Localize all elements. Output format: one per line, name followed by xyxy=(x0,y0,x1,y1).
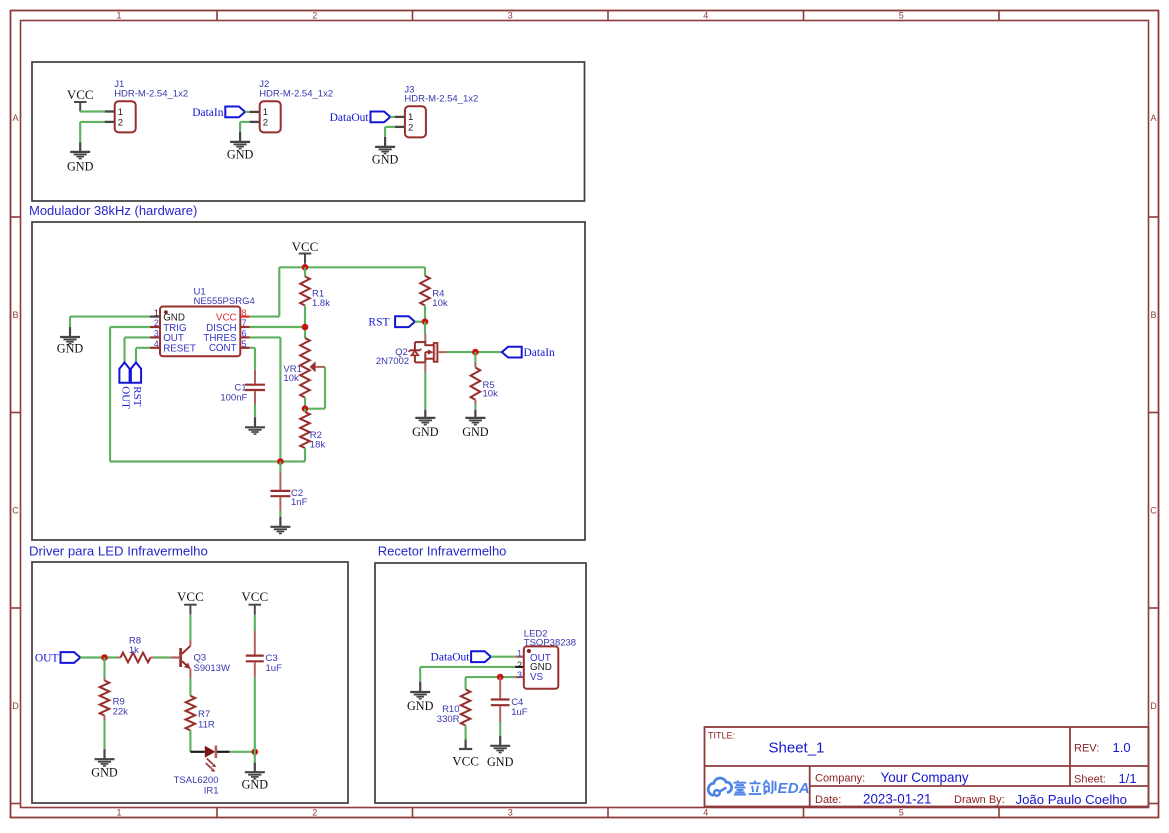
svg-text:10k: 10k xyxy=(432,298,448,309)
svg-text:D: D xyxy=(1150,701,1157,711)
svg-text:330R: 330R xyxy=(437,714,460,725)
wire J1 pin2 to GND xyxy=(80,122,105,142)
capacitor C3 1uF xyxy=(246,631,282,677)
svg-text:1.8k: 1.8k xyxy=(312,298,330,309)
svg-text:2N7002: 2N7002 xyxy=(376,356,409,367)
svg-text:OUT: OUT xyxy=(120,386,132,409)
svg-text:6: 6 xyxy=(242,329,247,339)
svg-text:Modulador 38kHz (hardware): Modulador 38kHz (hardware) xyxy=(29,203,197,218)
svg-text:Recetor Infravermelho: Recetor Infravermelho xyxy=(378,544,507,559)
svg-text:DataIn: DataIn xyxy=(192,107,224,119)
svg-text:22k: 22k xyxy=(113,707,129,718)
driver section box xyxy=(32,562,348,803)
svg-text:RST: RST xyxy=(131,386,143,406)
svg-text:CONT: CONT xyxy=(209,343,237,354)
wire C4 to GND xyxy=(499,722,501,736)
svg-text:DataOut: DataOut xyxy=(330,112,370,124)
net port OUT (555 output) xyxy=(119,363,131,410)
svg-text:2: 2 xyxy=(154,318,159,328)
wire VCC rail horizontal xyxy=(279,266,425,268)
svg-text:RESET: RESET xyxy=(163,344,196,355)
svg-text:EDA: EDA xyxy=(778,780,810,797)
svg-text:8: 8 xyxy=(242,308,247,318)
svg-text:1k: 1k xyxy=(129,645,139,656)
wire node to Q2 drain xyxy=(424,322,426,334)
net port RST (reset) xyxy=(131,363,143,407)
wire C3 to node xyxy=(254,677,256,752)
svg-text:TRIG: TRIG xyxy=(163,323,186,334)
power flag VCC (R10, inverted) xyxy=(452,740,479,769)
ground GND (J1) xyxy=(67,142,94,173)
ground (C2) xyxy=(270,511,290,534)
svg-text:1uF: 1uF xyxy=(266,663,283,674)
svg-text:Sheet_1: Sheet_1 xyxy=(769,740,825,757)
wire U1 pin3 to OUT port xyxy=(125,337,151,362)
svg-text:VCC: VCC xyxy=(216,312,237,323)
svg-text:S9013W: S9013W xyxy=(194,663,230,674)
resistor R9 22k xyxy=(100,658,128,721)
wire U1 pin4 to RST port xyxy=(136,348,150,363)
svg-text:VCC: VCC xyxy=(452,753,479,768)
row letters left xyxy=(12,113,19,711)
power flag VCC (555 rail) xyxy=(292,239,319,264)
svg-text:2023-01-21: 2023-01-21 xyxy=(863,792,932,807)
junction DataIn/R5 node xyxy=(472,349,479,356)
transistor Q3 S9013W xyxy=(171,640,230,678)
svg-text:Drawn By:: Drawn By: xyxy=(954,794,1005,806)
modulator section box xyxy=(32,222,585,540)
svg-text:Company:: Company: xyxy=(815,773,865,785)
connector J2 HDR-M-2.54_1x2 xyxy=(250,79,333,132)
svg-text:B: B xyxy=(1150,310,1156,320)
svg-text:REV:: REV: xyxy=(1074,743,1099,755)
svg-text:2: 2 xyxy=(408,123,413,134)
power flag VCC (Q3 collector) xyxy=(177,589,204,615)
svg-text:GND: GND xyxy=(462,425,489,439)
svg-text:3: 3 xyxy=(508,808,513,818)
svg-text:3: 3 xyxy=(154,329,159,339)
connector section box xyxy=(32,62,585,201)
column numbers top xyxy=(116,11,903,21)
wire J2 pin2 to GND xyxy=(240,122,250,132)
logo chinese characters 嘉立创 xyxy=(734,780,776,795)
junction VR1/R2 node xyxy=(302,405,309,412)
wire LED2 pin3 to R10/C4 xyxy=(466,677,516,689)
wire LED to C3/GND node xyxy=(230,751,255,753)
svg-text:VS: VS xyxy=(530,672,544,683)
svg-text:A: A xyxy=(1150,113,1156,123)
wire R5 to GND xyxy=(474,405,476,410)
svg-text:VCC: VCC xyxy=(67,87,94,102)
svg-text:1nF: 1nF xyxy=(291,497,308,508)
svg-text:4: 4 xyxy=(154,339,159,349)
wire R9 to GND xyxy=(103,720,105,749)
wire node down to GND xyxy=(254,752,256,763)
ground GND (C3/LED) xyxy=(242,762,269,791)
svg-text:5: 5 xyxy=(899,11,904,21)
capacitor C2 1nF xyxy=(270,462,307,512)
resistor R2 18k xyxy=(300,409,325,451)
ground GND (R9) xyxy=(91,749,118,779)
svg-text:2: 2 xyxy=(312,11,317,21)
svg-text:GND: GND xyxy=(91,765,118,779)
column numbers bottom xyxy=(116,808,903,818)
svg-text:TITLE:: TITLE: xyxy=(708,731,735,741)
wire J3 pin2 to GND xyxy=(385,127,395,137)
svg-text:5: 5 xyxy=(242,339,247,349)
transistor Q2 2N7002 xyxy=(376,334,447,372)
svg-text:C3: C3 xyxy=(266,653,278,664)
ground GND (U1 pin1) xyxy=(57,327,84,355)
wire VCC to C3 xyxy=(254,615,256,631)
svg-text:B: B xyxy=(12,310,18,320)
wire DataIn to J2 pin1 xyxy=(245,111,250,113)
svg-text:HDR-M-2.54_1x2: HDR-M-2.54_1x2 xyxy=(114,88,188,99)
svg-text:Sheet:: Sheet: xyxy=(1074,774,1106,786)
svg-text:4: 4 xyxy=(703,808,708,818)
resistor R5 10k xyxy=(471,352,498,404)
svg-text:5: 5 xyxy=(899,808,904,818)
wire U1 pin7 DISCH to R1/VR1 node xyxy=(250,326,305,328)
svg-text:GND: GND xyxy=(67,159,94,173)
svg-text:Your Company: Your Company xyxy=(881,770,969,785)
svg-text:10k: 10k xyxy=(483,389,499,400)
wire OUT to R8/R9 xyxy=(80,656,117,658)
svg-text:RST: RST xyxy=(368,317,389,329)
ground GND (R5) xyxy=(462,410,489,439)
wire VR1 bottom to node xyxy=(304,398,306,409)
power flag VCC (C3) xyxy=(241,589,268,615)
svg-text:1: 1 xyxy=(116,808,121,818)
svg-text:GND: GND xyxy=(487,755,514,769)
junction LED/C3/GND node xyxy=(252,749,259,756)
svg-text:11R: 11R xyxy=(198,719,215,730)
svg-text:3: 3 xyxy=(508,11,513,21)
svg-text:1: 1 xyxy=(517,648,522,658)
wire U1 pin6 THRES down to bottom rail xyxy=(250,337,281,461)
svg-text:3: 3 xyxy=(517,670,522,680)
svg-text:Date:: Date: xyxy=(815,794,841,806)
svg-text:1: 1 xyxy=(408,112,413,123)
svg-text:D: D xyxy=(12,701,19,711)
ground GND (J2) xyxy=(227,132,254,161)
svg-text:GND: GND xyxy=(242,778,269,792)
title block outline xyxy=(705,727,1149,807)
wire U1 pin2 TRIG down to bottom rail xyxy=(110,327,150,462)
svg-text:10k: 10k xyxy=(283,373,299,384)
receiver section box xyxy=(375,563,586,803)
junction OUT/R9 node xyxy=(101,654,108,661)
wire R7 to LED IR1 xyxy=(189,730,191,752)
wire R10 to VCC xyxy=(465,726,467,740)
svg-text:1: 1 xyxy=(118,107,123,118)
svg-text:4: 4 xyxy=(703,11,708,21)
svg-text:2: 2 xyxy=(312,808,317,818)
wire VCC to Q3 collector xyxy=(189,615,191,640)
svg-text:IR1: IR1 xyxy=(204,785,219,796)
svg-text:DataOut: DataOut xyxy=(431,652,471,664)
wire R8 to Q3 base xyxy=(154,656,171,658)
junction VCC rail / R1 xyxy=(302,264,309,271)
wire U1 pin5 CONT to C1 xyxy=(250,348,255,370)
ground GND (Q2) xyxy=(412,410,439,439)
wire Q3 emitter to R7 xyxy=(189,678,191,696)
op-amp timer U1 NE555PSRG4 xyxy=(150,287,255,357)
svg-text:1uF: 1uF xyxy=(511,707,528,718)
net port DataOut (J3) xyxy=(330,112,391,124)
ground GND (J3) xyxy=(372,137,399,166)
junction DISCH node xyxy=(302,324,309,331)
svg-text:1.0: 1.0 xyxy=(1113,740,1131,755)
wire VCC to J1 pin1 xyxy=(80,110,105,112)
power flag VCC (J1) xyxy=(67,87,94,111)
svg-text:João Paulo Coelho: João Paulo Coelho xyxy=(1016,792,1127,807)
led IR1 TSAL6200 xyxy=(174,746,230,797)
net port DataIn (J2) xyxy=(192,107,245,119)
svg-text:C: C xyxy=(12,505,19,515)
ground GND (C4) xyxy=(487,736,514,769)
wire R4 to Q2 drain node xyxy=(424,306,426,322)
ground GND (LED2 pin2) xyxy=(407,682,434,713)
resistor R10 330R xyxy=(437,689,471,725)
potentiometer VR1 10k xyxy=(283,338,319,398)
svg-text:DISCH: DISCH xyxy=(206,323,236,334)
svg-text:A: A xyxy=(12,113,18,123)
svg-text:2: 2 xyxy=(263,118,268,129)
svg-text:NE555PSRG4: NE555PSRG4 xyxy=(194,296,255,307)
svg-text:OUT: OUT xyxy=(35,653,59,665)
wire R2 bottom to rail corner xyxy=(110,448,305,462)
wire DataOut to J3 pin1 xyxy=(390,116,395,118)
svg-text:GND: GND xyxy=(412,425,439,439)
svg-text:2: 2 xyxy=(517,660,522,670)
wire VR1 wiper to R2 top node xyxy=(305,367,325,409)
wire rail to U1 pin8 VCC xyxy=(250,267,280,316)
junction VS/C4 node xyxy=(497,674,504,681)
svg-text:GND: GND xyxy=(163,312,185,323)
svg-text:GND: GND xyxy=(57,341,84,355)
svg-text:Q3: Q3 xyxy=(194,652,207,663)
svg-text:1: 1 xyxy=(263,107,268,118)
svg-text:1/1: 1/1 xyxy=(1119,771,1137,786)
svg-text:100nF: 100nF xyxy=(220,393,247,404)
svg-text:VCC: VCC xyxy=(177,589,204,604)
ir receiver LED2 TSOP38238 xyxy=(515,629,576,689)
net port DataOut (receiver) xyxy=(431,651,491,663)
resistor R8 1k xyxy=(118,635,154,662)
connector J3 HDR-M-2.54_1x2 xyxy=(395,84,478,137)
svg-text:2: 2 xyxy=(118,118,123,129)
net port OUT (driver input) xyxy=(35,652,80,664)
logo JLC EDA cloud icon xyxy=(708,778,731,796)
svg-text:TSOP38238: TSOP38238 xyxy=(524,637,576,648)
connector J1 HDR-M-2.54_1x2 xyxy=(105,79,188,132)
svg-text:VCC: VCC xyxy=(292,239,319,254)
svg-text:GND: GND xyxy=(372,152,399,166)
svg-text:Driver para LED Infravermelho: Driver para LED Infravermelho xyxy=(29,544,208,559)
svg-text:18k: 18k xyxy=(310,440,326,451)
resistor R7 11R xyxy=(186,696,215,731)
resistor R4 10k xyxy=(420,276,448,309)
wire Q2 source to GND xyxy=(424,372,426,410)
resistor R1 1.8k xyxy=(300,267,330,309)
wire Q2 gate to DataIn node xyxy=(447,351,502,353)
row letters right xyxy=(1150,113,1157,711)
svg-text:OUT: OUT xyxy=(163,333,184,344)
junction bottom rail / C2 xyxy=(277,458,284,465)
wire U1 pin1 to GND xyxy=(70,317,150,328)
capacitor C4 1uF xyxy=(491,677,528,722)
svg-text:GND: GND xyxy=(227,147,254,161)
wire R1 to VR1 xyxy=(304,306,306,339)
svg-text:GND: GND xyxy=(407,699,434,713)
ground (C1) xyxy=(245,405,265,435)
junction RST/R4/Q2 node xyxy=(422,318,429,325)
net port DataIn (gate) xyxy=(502,347,555,359)
wire LED2 pin2 to GND xyxy=(420,667,515,682)
wire RST port to node xyxy=(415,321,425,323)
capacitor C1 100nF xyxy=(220,370,265,405)
svg-text:7: 7 xyxy=(242,318,247,328)
svg-text:C: C xyxy=(1150,505,1157,515)
svg-text:VCC: VCC xyxy=(241,589,268,604)
svg-text:1: 1 xyxy=(116,11,121,21)
wire DataOut to LED2 pin1 xyxy=(491,656,515,658)
svg-text:HDR-M-2.54_1x2: HDR-M-2.54_1x2 xyxy=(259,88,333,99)
net port RST (to gate node) xyxy=(368,316,414,328)
svg-text:DataIn: DataIn xyxy=(524,347,556,359)
svg-text:1: 1 xyxy=(154,308,159,318)
svg-text:HDR-M-2.54_1x2: HDR-M-2.54_1x2 xyxy=(404,94,478,105)
wire rail down to R4 xyxy=(424,267,426,276)
wire VCC stem to rail xyxy=(304,264,306,268)
